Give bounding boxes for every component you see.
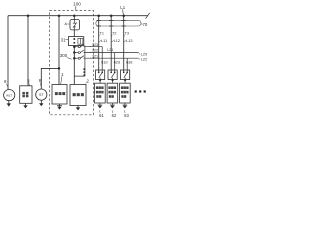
label 62d <box>114 60 120 64</box>
phase column T2 <box>110 16 112 73</box>
svg-text:L21: L21 <box>107 48 113 52</box>
label 5 <box>27 78 30 83</box>
svg-text:T2: T2 <box>112 31 116 35</box>
general load box 5 <box>20 86 32 104</box>
arrow under general load <box>25 104 27 106</box>
svg-text:T1: T1 <box>100 31 104 35</box>
svg-text:62d: 62d <box>114 60 120 64</box>
phase column T3 <box>123 16 125 73</box>
arrow under load 61 <box>99 103 101 105</box>
leader for 5 <box>28 82 31 85</box>
label 62 <box>112 113 117 118</box>
label 31 <box>61 37 66 42</box>
svg-text:31: 31 <box>61 37 66 42</box>
svg-text:1: 1 <box>61 72 64 77</box>
label 4 <box>64 21 67 26</box>
label L12 <box>114 39 120 43</box>
wire drop to unit 1 <box>58 16 60 85</box>
node bus T2 <box>110 14 113 17</box>
feeder wire x74 <box>73 16 75 85</box>
label 61d <box>101 60 107 64</box>
svg-text:323: 323 <box>92 43 98 47</box>
arrow under ST <box>40 100 42 103</box>
contact line 323 <box>73 45 76 48</box>
svg-text:L11: L11 <box>101 39 107 43</box>
backup load 62 <box>112 80 114 84</box>
storage unit box 2 <box>70 85 86 106</box>
label L22 <box>141 58 147 62</box>
leader for 1 <box>61 76 62 84</box>
leader for 70 <box>141 23 142 24</box>
svg-text:5: 5 <box>27 78 30 83</box>
label 8 <box>39 78 42 83</box>
CT loop 70 <box>96 20 141 26</box>
svg-text:L1: L1 <box>120 5 125 10</box>
wire drop to general load <box>27 16 29 86</box>
wire to ST <box>41 68 59 89</box>
svg-text:62: 62 <box>112 113 117 118</box>
svg-text:2: 2 <box>86 78 89 83</box>
svg-text:WLT: WLT <box>6 94 12 98</box>
leader for 9 <box>6 84 7 87</box>
arrow under meter <box>8 101 10 104</box>
arrow under load 63 <box>124 103 126 105</box>
label T3 <box>125 31 129 35</box>
svg-text:ST: ST <box>39 93 44 97</box>
label 70 <box>142 22 147 27</box>
svg-text:T3: T3 <box>125 31 129 35</box>
phase column T1 <box>98 16 100 73</box>
node bus T1 <box>97 14 100 17</box>
svg-text:300: 300 <box>60 53 68 58</box>
node bus x59 <box>58 14 61 17</box>
vertical ellipsis <box>84 68 86 76</box>
dashed enclosure 100 <box>50 10 94 114</box>
arrow under unit 2 <box>77 106 79 108</box>
svg-text:70: 70 <box>142 22 147 27</box>
relay 31 <box>68 37 83 46</box>
node bus x28 <box>27 14 30 17</box>
leader for 2 <box>85 82 87 84</box>
arrow under unit 1 <box>59 104 61 107</box>
label 2 <box>86 78 89 83</box>
horizontal ellipsis <box>135 90 146 92</box>
svg-text:L12: L12 <box>114 39 120 43</box>
label L21 <box>107 48 113 52</box>
leader for 8 <box>39 83 42 87</box>
label 300 <box>60 53 68 58</box>
label L29 <box>141 53 147 57</box>
label L11 <box>101 39 107 43</box>
svg-text:61: 61 <box>99 113 104 118</box>
relay coil 31 <box>78 38 83 44</box>
svg-text:61d: 61d <box>101 60 107 64</box>
leader for 100 <box>75 6 77 10</box>
svg-text:L22: L22 <box>141 58 147 62</box>
label 63 <box>124 113 129 118</box>
svg-text:322: 322 <box>92 49 98 53</box>
svg-text:100: 100 <box>73 2 81 7</box>
contact line 322 <box>73 51 76 54</box>
backup load 63 <box>124 80 126 84</box>
label L1 <box>120 5 125 10</box>
label 61 <box>99 113 104 118</box>
bus end slash <box>146 13 150 19</box>
wire drop to meter 9 <box>7 16 9 90</box>
label 100 <box>73 2 81 7</box>
leader for 31 <box>65 39 68 41</box>
meter circle (9) <box>4 90 15 101</box>
contact line 321 <box>73 57 76 60</box>
leader for 4 <box>67 23 69 25</box>
label T2 <box>112 31 116 35</box>
arrow under load 62 <box>111 103 113 105</box>
node x59 y68 <box>58 67 61 70</box>
unit box 1 <box>52 85 67 105</box>
changeover switch 61d <box>96 70 105 80</box>
label 63d <box>126 60 132 64</box>
ST circle (8) <box>36 89 47 100</box>
changeover switch 62d <box>108 70 117 80</box>
changeover switch 63d <box>121 70 130 80</box>
svg-text:321: 321 <box>92 55 98 59</box>
node bus x74 <box>73 14 76 17</box>
relay return wire <box>74 46 85 77</box>
breaker 4 <box>70 20 80 30</box>
svg-text:63: 63 <box>124 113 129 118</box>
label T1 <box>100 31 104 35</box>
leader for 300 <box>67 58 72 60</box>
main bus L1 <box>8 15 148 17</box>
node bus T3 <box>122 14 125 17</box>
svg-text:9: 9 <box>4 79 7 84</box>
label L13 <box>126 39 132 43</box>
label 9 <box>4 79 7 84</box>
backup load 61 <box>99 80 101 84</box>
svg-text:L29: L29 <box>141 53 147 57</box>
leader for L1 <box>122 9 125 15</box>
svg-text:L13: L13 <box>126 39 132 43</box>
svg-text:63d: 63d <box>126 60 132 64</box>
label 1 <box>61 72 64 77</box>
svg-text:4: 4 <box>64 21 67 26</box>
